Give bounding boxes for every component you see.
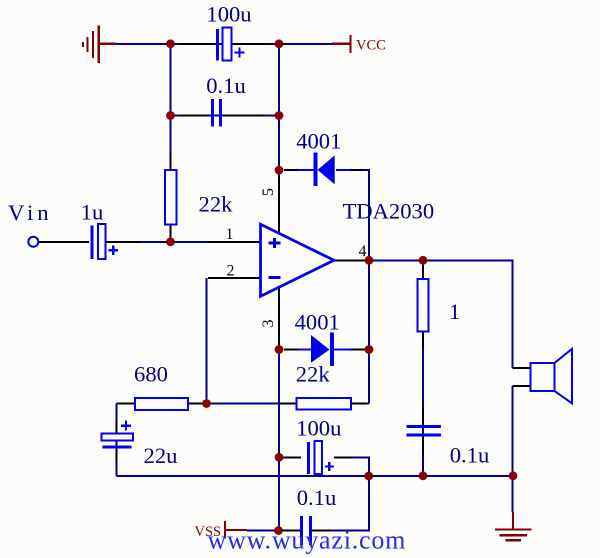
- wire VSS lead navy part: [247, 530, 284, 532]
- black component pin leads: [39, 44, 531, 531]
- svg-text:www.wuyazi.com: www.wuyazi.com: [208, 526, 407, 555]
- pin leads 22k vertical resistor: [170, 153, 172, 170]
- pin leads bottom diode: [284, 349, 298, 351]
- pin lead input terminal to 1u: [39, 241, 89, 243]
- diode 4001 (bottom, cathode right): [298, 333, 352, 366]
- wire x=279 vertical top (VCC to pin5 node): [278, 44, 280, 170]
- capacitor 22u (electrolytic, vertical): [102, 421, 134, 447]
- junction output / resistor 1: [419, 256, 428, 265]
- pin leads 0.1u right: [422, 408, 424, 427]
- svg-text:4001: 4001: [295, 310, 340, 335]
- pin 2 lead op-amp: [208, 277, 261, 279]
- ground (power gnd) top-left: [83, 26, 117, 64]
- svg-text:2: 2: [227, 263, 235, 280]
- wire 0.1u decoupling row to ground corner: [330, 476, 369, 531]
- speaker LS1: [531, 349, 573, 404]
- svg-text:5: 5: [260, 188, 277, 196]
- pin leads 0.1u top: [181, 115, 209, 117]
- svg-text:1u: 1u: [81, 200, 104, 225]
- svg-text:VCC: VCC: [356, 38, 386, 54]
- junction ground row / zobel: [419, 471, 428, 480]
- svg-text:22u: 22u: [144, 443, 178, 468]
- junction pin3 / bottom diode: [275, 345, 284, 354]
- wire feedback row: [117, 403, 369, 405]
- wire resistor 1 branch vertical: [422, 260, 424, 476]
- capacitor 0.1u (bottom): [302, 516, 311, 545]
- wire 0.1u bypass row: [171, 115, 280, 117]
- wire inverting input vertical: [206, 278, 208, 404]
- junction output pin4: [365, 256, 374, 265]
- wire x=279 vertical bottom (pin3 rail down to VSS row): [278, 350, 280, 531]
- junction 0.1u row left: [166, 111, 175, 120]
- svg-text:100u: 100u: [296, 416, 341, 441]
- svg-text:22k: 22k: [296, 362, 331, 387]
- junction bottom diode / output vertical: [365, 345, 374, 354]
- junction VSS row: [274, 526, 283, 535]
- junction top rail / x=279: [275, 39, 284, 48]
- op-amp U1 TDA2030: [261, 224, 335, 296]
- wire 680/22u branch vertical: [116, 404, 118, 476]
- capacitor 0.1u (right zobel): [407, 427, 442, 436]
- svg-text:4: 4: [359, 243, 367, 260]
- svg-text:4001: 4001: [296, 129, 341, 154]
- resistor 22k (vertical): [165, 170, 176, 225]
- junction top rail / 22k branch: [166, 39, 175, 48]
- pin leads speaker: [513, 367, 532, 369]
- pin leads 22k horizontal: [281, 403, 296, 405]
- wire output row to speaker corner: [369, 260, 513, 368]
- pin leads top diode: [284, 169, 298, 171]
- junction ground row / speaker return: [509, 471, 518, 480]
- svg-text:TDA2030: TDA2030: [343, 199, 435, 224]
- junction ground row / decoupling: [364, 472, 373, 481]
- input terminal circle: [28, 237, 38, 247]
- junction feedback node: [202, 399, 211, 408]
- capacitor 0.1u (top bypass): [213, 99, 221, 127]
- svg-text:1: 1: [449, 299, 460, 324]
- svg-text:1: 1: [226, 226, 234, 243]
- pin leads 100u top: [181, 43, 213, 45]
- wire top rail VCC row: [117, 43, 333, 45]
- svg-text:100u: 100u: [206, 2, 251, 27]
- pin 3 lead op-amp: [278, 288, 280, 350]
- wire output vertical down to feedback resistor: [368, 260, 370, 403]
- junction 100u bottom left: [275, 453, 284, 462]
- svg-text:3: 3: [260, 320, 277, 328]
- capacitor 100u (top electrolytic): [218, 28, 245, 61]
- wire left vertical x=170 from top rail to +input row: [170, 44, 172, 242]
- ground bottom-right: [495, 512, 532, 540]
- svg-text:Vin: Vin: [8, 200, 53, 225]
- pin leads resistor 1: [422, 263, 424, 279]
- pin lead 1u to node: [106, 241, 140, 243]
- svg-text:22k: 22k: [199, 192, 234, 217]
- svg-text:0.1u: 0.1u: [450, 443, 490, 468]
- capacitor 100u (bottom electrolytic): [309, 441, 335, 474]
- pin 4 lead op-amp: [334, 259, 369, 261]
- junction pin5 / top diode: [275, 166, 284, 175]
- pin 1 lead op-amp: [208, 241, 261, 243]
- wire speaker bottom to ground row: [512, 386, 514, 512]
- pin 5 lead op-amp: [278, 170, 280, 233]
- svg-text:680: 680: [134, 362, 168, 387]
- diode 4001 (top, cathode left): [297, 153, 351, 187]
- junction input node: [166, 237, 175, 246]
- pin leads 100u bottom: [282, 456, 301, 458]
- pin leads 0.1u bottom: [284, 530, 300, 532]
- svg-text:0.1u: 0.1u: [297, 485, 337, 510]
- wire ground row: [117, 475, 513, 477]
- capacitor 1u (input electrolytic): [92, 224, 118, 259]
- resistor 1 (vertical, output zobel): [418, 279, 429, 332]
- resistor 680 (horizontal): [135, 398, 188, 410]
- wire 100u decoupling row to ground corner: [353, 457, 369, 476]
- junction 0.1u row right: [275, 111, 284, 120]
- node VCC power bar: [332, 35, 351, 53]
- svg-text:0.1u: 0.1u: [206, 73, 246, 98]
- pin leads 22u: [116, 420, 118, 434]
- wire input row segment: [137, 241, 210, 243]
- wires: navy nets: [117, 44, 514, 531]
- wire top diode to output corner: [360, 170, 369, 260]
- resistor 22k (horizontal feedback): [296, 398, 351, 410]
- pin leads 680: [120, 403, 135, 405]
- node VSS power bar: [225, 521, 247, 539]
